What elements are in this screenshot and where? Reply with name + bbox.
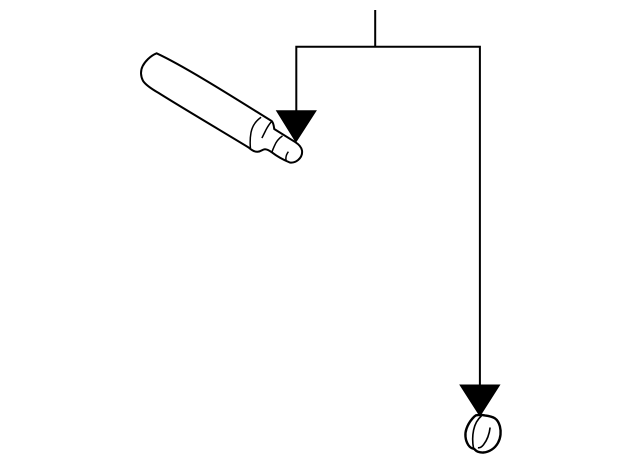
nut rim edge (473, 416, 482, 449)
mast tip end arc d (286, 152, 289, 161)
antenna mast M1 body outline (141, 53, 302, 162)
mast tip arc c (272, 136, 283, 152)
arrow to mast (277, 111, 316, 142)
mast collar arc a (250, 117, 261, 148)
antenna nut N1 outer (465, 415, 500, 453)
arrow to nut (460, 385, 500, 416)
callout leader lines (296, 10, 480, 387)
nut hole edge (478, 428, 490, 448)
mast collar arc b (262, 121, 272, 138)
